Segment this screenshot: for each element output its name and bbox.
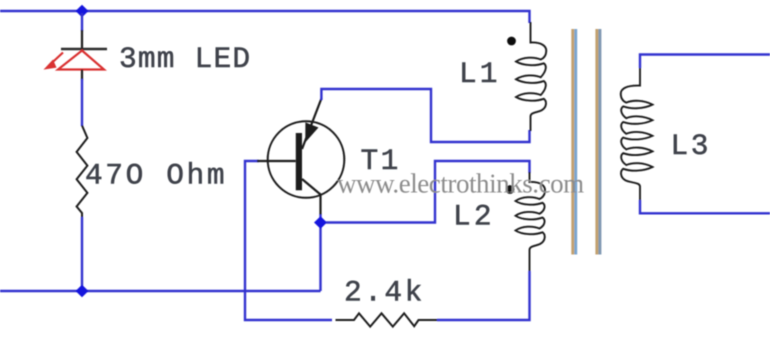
wire emitter to L1 <box>321 89 529 142</box>
resistor R2 2.4k <box>336 313 439 326</box>
inductor L1 <box>516 22 546 131</box>
transformer core line 2 <box>595 29 601 255</box>
wire LED cathode to R470 <box>81 79 83 126</box>
svg-text:3mm LED: 3mm LED <box>119 42 251 76</box>
wire top rail <box>0 11 530 23</box>
svg-text:L3: L3 <box>671 129 712 163</box>
inductor L2 <box>516 172 546 273</box>
wire R470 to bottom rail <box>81 217 83 291</box>
wire base <box>245 161 332 320</box>
svg-text:L1: L1 <box>459 57 500 91</box>
wire bottom rail <box>0 290 321 292</box>
wire L3 bottom <box>640 200 770 213</box>
svg-text:L2: L2 <box>453 200 495 234</box>
transformer core line 1 <box>571 29 577 255</box>
node junction top-left <box>76 5 89 17</box>
wire LED anode <box>81 13 83 31</box>
svg-text:47O Ohm: 47O Ohm <box>85 159 227 193</box>
node junction bottom-left <box>76 285 89 297</box>
wire R2.4k to L2 bottom <box>437 271 530 320</box>
inductor L3 <box>621 67 653 201</box>
wire collector junction to L2 <box>326 161 530 223</box>
svg-text:www.electrothinks.com: www.electrothinks.com <box>337 169 584 199</box>
polarity dot L1 <box>507 37 516 46</box>
LED D1 (3mm) <box>44 30 108 80</box>
wire L3 top <box>640 55 770 69</box>
resistor R1 470 Ohm <box>77 126 88 218</box>
polarity dot L2 <box>506 185 515 194</box>
transistor T1 <box>257 99 344 215</box>
svg-text:2.4k: 2.4k <box>344 276 425 310</box>
node collector junction <box>314 216 327 228</box>
wire collector junction to bottom rail <box>319 214 321 291</box>
